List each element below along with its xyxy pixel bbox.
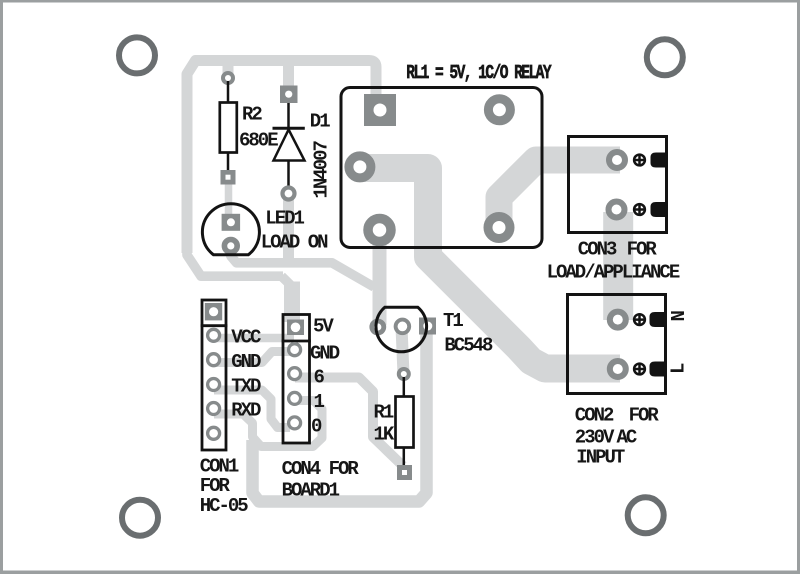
transistor T1 right square pad [419, 318, 436, 335]
CON3 screw symbol 1 [634, 155, 645, 166]
wire T1 center pad to R1 top pad [402, 327, 404, 374]
svg-text:1K: 1K [374, 424, 395, 446]
CON2 terminal blob L [650, 362, 667, 377]
connector CON4 square pad 5V [287, 320, 304, 336]
svg-text:680E: 680E [239, 129, 278, 151]
diode D1 square pad [280, 86, 298, 104]
wire relay ML pad to CON2 L pad (wide) [358, 168, 620, 369]
svg-text:1: 1 [314, 391, 325, 413]
wire RXD line down + bottom hook to T1 square pad [253, 330, 427, 502]
svg-text:FOR: FOR [627, 239, 658, 261]
diode D1 bottom pad [283, 188, 295, 200]
resistor R1 top pad [399, 369, 409, 379]
CON2 screw symbol N [634, 314, 645, 325]
wire CON4 pad6 to R1 bottom pad [295, 378, 403, 467]
CON3 terminal blob 2 [651, 202, 668, 217]
resistor R2 bottom square pad [221, 170, 236, 185]
svg-text:GND: GND [231, 351, 261, 373]
resistor R2 top pad [223, 73, 233, 83]
wire CON3 pad2 to CON2 pad N (wide) [603, 212, 633, 320]
svg-text:T1: T1 [443, 310, 463, 332]
svg-text:CON2: CON2 [575, 404, 614, 426]
resistor R2 body [220, 103, 237, 153]
resistor R1 body [396, 397, 414, 448]
wire CON1 VCC to CON4 5V pad [214, 334, 294, 343]
svg-text:CON3: CON3 [578, 239, 617, 261]
diode D1 cathode bar [273, 127, 305, 130]
svg-text:RXD: RXD [231, 400, 261, 422]
resistor R2 lead top [227, 81, 230, 103]
svg-text:N: N [668, 311, 690, 322]
svg-text:LOAD ON: LOAD ON [261, 232, 328, 254]
wire LED1 bottom to relay/T1 vertical [231, 244, 374, 287]
LED1 square pad [222, 214, 241, 231]
transistor T1 left pad [372, 321, 384, 333]
connector CON3 pad 1 [609, 152, 625, 168]
svg-text:1N4007: 1N4007 [310, 140, 332, 198]
connector CON1 pin VCC [208, 329, 220, 341]
wire R2 bottom to LED1 square pad [225, 177, 233, 218]
mounting hole bottom-right [628, 497, 664, 533]
wire vertical into CON4 5V pad [284, 282, 300, 323]
wire CON1 GND to CON4 GND [214, 352, 294, 363]
relay RL1 outline [341, 88, 542, 248]
transistor T1 outline circle flat top [376, 307, 427, 351]
svg-text:D1: D1 [310, 111, 330, 133]
CON2 terminal blob N [650, 312, 667, 327]
wire top net: left vertical + top horizontal into relay square pad [187, 61, 376, 254]
connector CON3 pad 2 [609, 202, 625, 218]
svg-text:5V: 5V [313, 316, 334, 338]
svg-text:BC548: BC548 [444, 334, 493, 356]
resistor R1 bottom square pad [397, 465, 412, 480]
svg-text:TXD: TXD [231, 375, 261, 397]
resistor R2 lead bottom [227, 153, 230, 173]
relay RL1 square pad pin1 [364, 94, 396, 126]
mounting hole top-left [119, 37, 155, 73]
diode D1 triangle [274, 130, 305, 161]
resistor R1 lead bottom [403, 448, 406, 469]
connector CON2 pad N [610, 312, 626, 328]
transistor T1 center pad [396, 320, 410, 334]
svg-text:FOR: FOR [629, 404, 660, 426]
wire CON1 TXD to CON4 pad 0 [214, 390, 290, 428]
svg-text:VCC: VCC [231, 327, 261, 349]
LED1 outline circle with flat bottom [202, 204, 259, 255]
svg-text:INPUT: INPUT [576, 446, 625, 468]
wire stub to D1 square pad [283, 60, 294, 94]
svg-text:RL1 = 5V, 1C/O RELAY: RL1 = 5V, 1C/O RELAY [406, 63, 552, 84]
connector CON4 pin GND [289, 344, 301, 356]
svg-text:R1: R1 [374, 402, 394, 424]
svg-text:LED1: LED1 [265, 208, 304, 230]
CON3 terminal blob 1 [651, 153, 668, 168]
svg-text:CON4 FOR: CON4 FOR [282, 458, 360, 480]
svg-text:BOARD1: BOARD1 [282, 480, 340, 502]
connector CON1 body box [202, 300, 226, 450]
mounting hole bottom-left [122, 500, 158, 536]
relay pad bottom-left [368, 219, 391, 242]
svg-text:R2: R2 [242, 104, 262, 126]
connector CON4 body box [283, 315, 310, 444]
connector CON4 pin 0 [289, 417, 301, 429]
LED1 round pad [224, 240, 237, 253]
connector CON1 pin TXD [208, 379, 220, 391]
diode D1 lead bottom [287, 161, 290, 189]
svg-text:HC-05: HC-05 [200, 495, 249, 517]
CON2 screw symbol L [634, 364, 645, 375]
wire CON1 RXD to CON4 pad 1 [214, 401, 322, 447]
CON3 screw symbol 2 [634, 204, 645, 215]
connector CON2 pad L [610, 361, 626, 377]
svg-text:230V: 230V [575, 427, 615, 449]
wire left vertical down to CON4 5V pad [187, 250, 283, 276]
connector CON1 square pad [205, 303, 222, 320]
svg-text:L: L [668, 363, 690, 374]
connector CON1 pin GND [208, 354, 220, 366]
relay pad mid-left [349, 156, 371, 178]
svg-text:GND: GND [310, 342, 340, 364]
resistor R1 lead top [403, 377, 406, 397]
wire stub to R2 top pad [223, 60, 234, 78]
connector CON2 outline [568, 295, 666, 394]
connector CON1 pin 5 [208, 427, 220, 439]
connector CON1 pin RXD [208, 403, 220, 415]
svg-text:6: 6 [314, 367, 325, 389]
wire relay BR pad to CON3 pad1 (wide) [499, 160, 620, 232]
connector CON1 divider line [201, 324, 228, 327]
svg-text:AC: AC [617, 427, 637, 449]
wire D1 bottom stub [283, 193, 294, 263]
svg-text:0: 0 [311, 416, 322, 438]
connector CON4 pin 1 [289, 392, 301, 404]
relay pad bottom-right [488, 217, 510, 239]
connector CON4 pin 6 [289, 368, 301, 380]
connector CON3 outline [569, 137, 667, 233]
connector CON4 divider line [282, 340, 311, 343]
relay pad top-right [488, 99, 510, 121]
diode D1 lead top [287, 103, 290, 127]
mounting hole top-right [647, 39, 683, 75]
wire relay BL pad to T1 left pad [373, 230, 387, 325]
svg-text:LOAD/APPLIANCE: LOAD/APPLIANCE [547, 261, 680, 283]
